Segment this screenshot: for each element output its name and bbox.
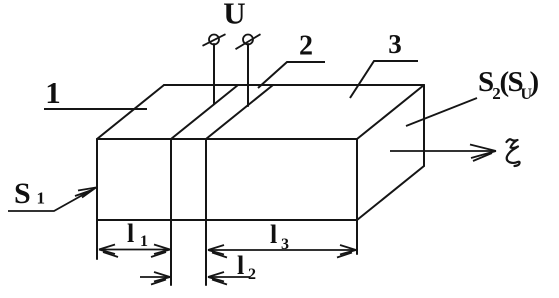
wire back top edge — [164, 84, 424, 86]
wire front bottom edge of block — [97, 219, 357, 221]
svg-text:2: 2 — [248, 266, 256, 283]
wire left electrode lead — [213, 44, 215, 104]
arrow xi (displacement direction) — [390, 145, 496, 162]
svg-text:3: 3 — [388, 29, 402, 59]
wire top-right depth edge — [357, 85, 424, 139]
svg-text:S: S — [14, 177, 31, 210]
wire top-left depth edge — [97, 85, 164, 139]
svg-text:): ) — [530, 66, 540, 98]
svg-text:2: 2 — [299, 31, 313, 62]
wire left front edge with extension line — [96, 139, 98, 259]
svg-text:1: 1 — [140, 233, 148, 250]
label xi (handwritten Greek xi) — [507, 139, 520, 166]
leader line for label 1 — [44, 108, 147, 110]
wire slab 2 right edge on top face — [206, 85, 273, 139]
svg-text:3: 3 — [281, 236, 289, 253]
wire right front edge with extension line — [356, 139, 358, 254]
svg-text:l: l — [127, 219, 134, 248]
wire right electrode lead — [247, 44, 249, 106]
svg-text:U: U — [223, 0, 245, 31]
dimension line l1 with arrowheads — [99, 245, 170, 258]
svg-text:1: 1 — [45, 75, 61, 110]
svg-text:1: 1 — [37, 189, 46, 208]
wire bottom-right depth edge — [357, 166, 424, 220]
dimension line l2 right arrow — [208, 272, 250, 285]
wire right boundary of slab 2 with extension line — [205, 139, 207, 285]
wire back right vertical edge — [423, 85, 425, 166]
terminal left — [203, 34, 226, 46]
leader line for label 3 — [350, 61, 418, 98]
wire slab 2 left edge on top face — [171, 85, 238, 139]
svg-text:l: l — [237, 251, 244, 280]
dimension line l2 left arrow — [140, 272, 170, 285]
terminal right — [236, 34, 261, 49]
wire front top edge of block — [97, 138, 357, 140]
leader line for label 2 — [258, 62, 325, 88]
leader line for S2(SU) — [406, 98, 477, 126]
svg-text:l: l — [270, 220, 277, 249]
dimension line l3 with arrowheads — [208, 245, 356, 258]
leader arrow for S1 — [8, 188, 96, 212]
wire left boundary of slab 2 with extension line — [170, 139, 172, 285]
